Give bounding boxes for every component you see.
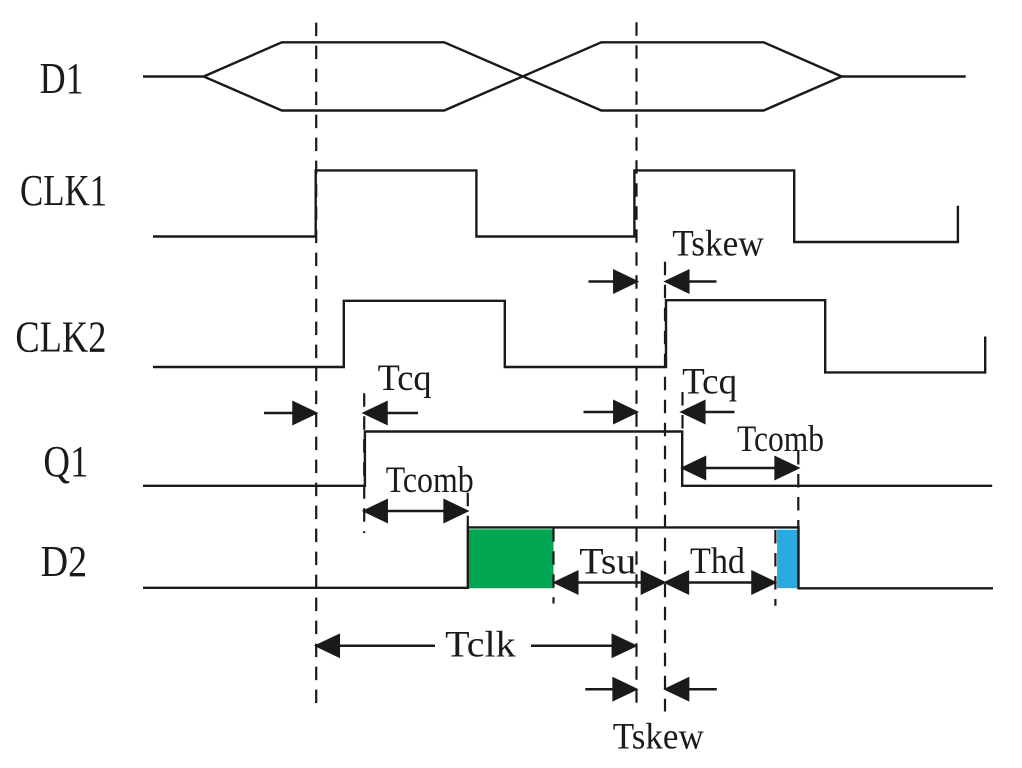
- svg-text:D2: D2: [41, 537, 88, 586]
- svg-text:Tskew: Tskew: [672, 224, 764, 265]
- svg-text:Tcq: Tcq: [378, 358, 432, 399]
- svg-text:CLK1: CLK1: [20, 166, 107, 215]
- svg-text:Tsu: Tsu: [579, 541, 636, 582]
- svg-text:Q1: Q1: [43, 437, 88, 486]
- svg-text:Tcomb: Tcomb: [386, 460, 474, 501]
- svg-text:Tclk: Tclk: [445, 624, 516, 665]
- svg-text:Thd: Thd: [690, 541, 745, 582]
- svg-text:D1: D1: [40, 54, 84, 103]
- svg-text:Tcomb: Tcomb: [737, 419, 824, 460]
- svg-text:Tskew: Tskew: [613, 717, 704, 758]
- svg-text:Tcq: Tcq: [682, 361, 737, 402]
- svg-text:CLK2: CLK2: [15, 313, 106, 362]
